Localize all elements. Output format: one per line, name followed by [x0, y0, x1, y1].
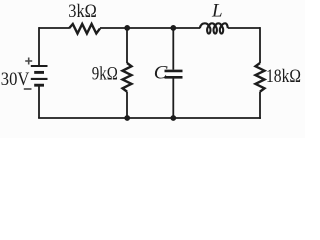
svg-text:9kΩ: 9kΩ: [92, 64, 118, 85]
capacitor C plates: [165, 71, 183, 77]
resistor R3 18k ohm zigzag: [256, 63, 265, 92]
node junction dot top 9k: [124, 25, 130, 31]
wire left vertical below battery: [38, 86, 40, 118]
wire 9k branch bottom: [126, 92, 128, 118]
wire right vertical below 18k: [259, 92, 261, 119]
wire bottom: [38, 117, 261, 119]
wire top middle (3k to coil): [100, 27, 200, 29]
node junction dot bottom 9k: [124, 115, 130, 121]
wire capacitor branch bottom: [172, 79, 174, 119]
resistor R1 3k ohm zigzag: [69, 24, 100, 34]
svg-text:18kΩ: 18kΩ: [266, 66, 301, 87]
wire top right (coil to corner): [228, 27, 260, 29]
minus sign: [24, 88, 32, 90]
svg-text:3kΩ: 3kΩ: [68, 1, 97, 22]
svg-text:30V: 30V: [1, 69, 30, 90]
wire 9k branch top: [126, 28, 128, 63]
resistor R2 9k ohm zigzag: [123, 63, 132, 92]
plus sign: [25, 58, 32, 65]
node junction dot top C: [170, 25, 176, 31]
wire top-left segment: [39, 27, 69, 29]
svg-text:L: L: [211, 1, 223, 22]
battery source 30V plates: [31, 66, 48, 85]
svg-text:C: C: [154, 64, 168, 84]
node junction dot bottom C: [170, 115, 176, 121]
wire left vertical above battery: [38, 27, 40, 65]
inductor L coil: [200, 23, 228, 33]
wire capacitor branch top: [172, 28, 174, 70]
wire right vertical above 18k: [259, 27, 261, 63]
